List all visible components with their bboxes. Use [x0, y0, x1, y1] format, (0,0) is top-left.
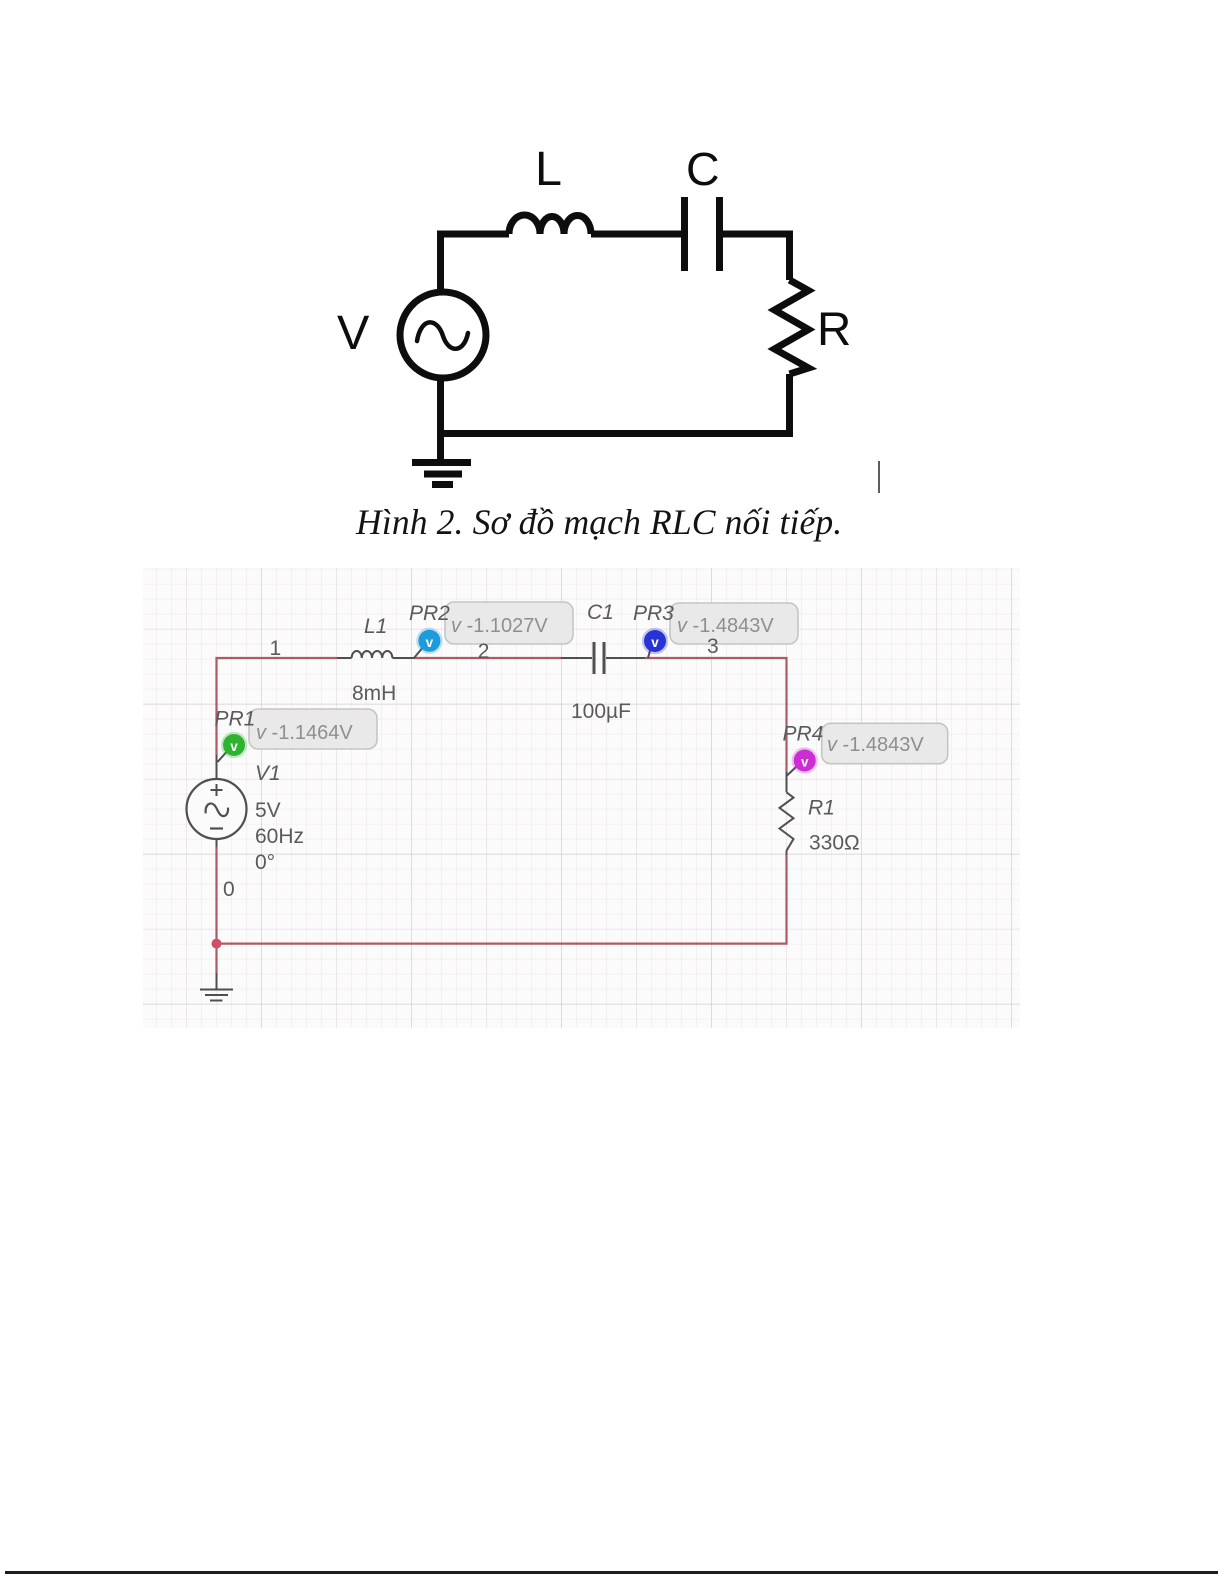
svg-text:V1: V1 — [255, 762, 281, 785]
bottom page rule — [5, 1571, 1218, 1574]
tooltip PR3 — [670, 603, 798, 644]
inductor L — [509, 215, 591, 234]
svg-text:v -1.1464V: v -1.1464V — [256, 722, 353, 744]
wire right vertical down to bottom — [786, 374, 793, 437]
svg-text:C1: C1 — [587, 601, 614, 624]
svg-text:v: v — [651, 635, 659, 650]
ground bar 1 — [412, 459, 471, 466]
wire between L and C — [591, 231, 681, 238]
V1 source circle — [187, 779, 247, 839]
ground bar 3 — [432, 481, 453, 488]
svg-text:v -1.4843V: v -1.4843V — [827, 734, 924, 756]
svg-text:L: L — [535, 142, 562, 196]
svg-text:C: C — [686, 143, 720, 195]
probe PR4 circle — [792, 747, 818, 773]
capacitor C right plate — [716, 197, 723, 271]
wire net3 C1 to R1 — [645, 658, 787, 772]
svg-text:330Ω: 330Ω — [809, 832, 860, 855]
bottom wire — [437, 430, 793, 437]
svg-text:PR3: PR3 — [633, 602, 674, 625]
probe tail PR1 — [218, 748, 231, 762]
resistor R1 zigzag — [780, 792, 794, 850]
wire net0 bottom — [217, 855, 787, 973]
voltage source V circle — [400, 292, 486, 378]
probe PR1 circle — [221, 732, 247, 758]
svg-text:0: 0 — [223, 878, 235, 901]
probe tail PR4 — [787, 766, 798, 776]
text cursor — [878, 461, 880, 493]
capacitor C left plate — [681, 197, 688, 271]
capacitor C1 — [561, 657, 645, 659]
wire source bottom red — [215, 847, 217, 944]
wire C to top-right corner — [723, 234, 790, 280]
probe PR2 circle — [416, 628, 442, 654]
ground bar 2 — [424, 471, 462, 478]
svg-text:R1: R1 — [808, 797, 835, 820]
svg-text:v: v — [801, 755, 809, 770]
probe PR3 circle — [642, 628, 668, 654]
svg-text:5V: 5V — [255, 799, 281, 822]
svg-text:0°: 0° — [255, 851, 275, 874]
V1 plus sign — [211, 784, 223, 796]
wire left vertical + top-left horizontal — [441, 234, 510, 289]
resistor R1 leads — [786, 772, 788, 855]
junction node 0 dot — [212, 939, 222, 949]
wire net2 between L1 and C1 — [414, 657, 561, 659]
sine wave inside source — [417, 322, 468, 348]
V1 source top lead — [216, 755, 218, 779]
ground bar2 — [205, 994, 228, 996]
svg-text:PR2: PR2 — [409, 602, 450, 625]
probe tail PR2 — [414, 646, 424, 658]
wire source bottom to ground — [437, 381, 444, 459]
svg-text:PR4: PR4 — [783, 723, 824, 746]
ground bar3 — [210, 1000, 223, 1002]
svg-text:v: v — [230, 739, 238, 754]
svg-text:2: 2 — [478, 640, 490, 663]
wire net1 top-left — [217, 658, 338, 755]
svg-text:3: 3 — [707, 635, 719, 658]
tooltip PR4 — [822, 723, 948, 763]
tooltip PR2 — [445, 602, 573, 644]
probe tail PR3 — [648, 647, 651, 658]
V1 minus sign — [210, 827, 223, 829]
svg-text:100µF: 100µF — [571, 700, 631, 723]
ground bar1 — [200, 989, 233, 991]
resistor R zigzag — [775, 280, 809, 374]
V1 source bottom lead — [216, 839, 218, 847]
svg-text:v -1.4843V: v -1.4843V — [677, 615, 774, 637]
svg-text:PR1: PR1 — [215, 708, 256, 731]
ground stem — [216, 973, 218, 990]
svg-text:60Hz: 60Hz — [255, 825, 304, 848]
tooltip PR1 — [249, 709, 377, 749]
svg-text:v: v — [426, 635, 434, 650]
inductor L1 — [337, 651, 414, 658]
caption — [356, 504, 842, 540]
svg-text:v -1.1027V: v -1.1027V — [451, 615, 548, 637]
svg-text:8mH: 8mH — [352, 682, 396, 705]
svg-text:1: 1 — [270, 637, 282, 660]
V1 sine — [206, 803, 228, 816]
svg-text:L1: L1 — [364, 615, 387, 638]
svg-text:V: V — [337, 306, 370, 360]
svg-text:R: R — [817, 303, 851, 356]
